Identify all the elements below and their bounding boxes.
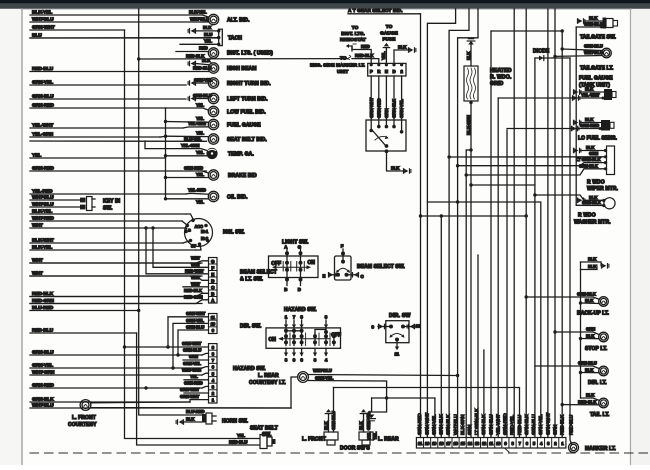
connector P R N D 2 [368, 63, 406, 76]
svg-text:OFF: OFF [271, 261, 281, 267]
svg-text:FUSE: FUSE [383, 36, 396, 41]
wire GRN-RED gear [378, 76, 380, 127]
wire GRN-BLU dir lt [535, 366, 599, 369]
svg-text:BLK: BLK [588, 264, 597, 269]
svg-text:GRN-BLK: GRN-BLK [584, 22, 604, 27]
wire GRN-WHT y=30 [30, 29, 125, 31]
svg-text:L. FRONT: L. FRONT [302, 437, 326, 443]
svg-text:HAZARD SW.: HAZARD SW. [233, 366, 266, 372]
svg-text:BLK-WHT: BLK-WHT [32, 237, 54, 243]
lamp FUEL GAUGE [208, 119, 218, 129]
svg-text:GRN-BLK: GRN-BLK [582, 200, 602, 205]
rotary gear switch [366, 120, 406, 151]
svg-text:DIODE: DIODE [533, 49, 550, 55]
svg-text:GRN-BLU: GRN-BLU [331, 411, 336, 430]
lamp OIL IND. [208, 191, 218, 201]
svg-text:GRN-RED: GRN-RED [32, 102, 54, 108]
wire BLK-YEL y=15 [30, 14, 203, 16]
svg-text:GRID: GRID [490, 81, 504, 87]
svg-text:YEL: YEL [367, 432, 372, 440]
svg-text:GRN-BLU: GRN-BLU [186, 324, 204, 329]
wire GRN-BLK wiper [466, 169, 606, 175]
svg-text:GRN-BLK: GRN-BLK [32, 396, 54, 402]
svg-text:BLU-YEL: BLU-YEL [184, 137, 202, 142]
contact column hazard x=301.6 [300, 334, 304, 338]
wire GRN gear [385, 76, 387, 127]
lamp BACK-UP LT. [599, 297, 609, 307]
svg-text:B: B [188, 227, 191, 232]
wire bus v6 GRN-BLK [525, 9, 527, 438]
svg-text:GRN-YEL: GRN-YEL [366, 411, 371, 430]
wire GRN-YEL rear courtesy [308, 381, 386, 431]
svg-text:GRN-RED: GRN-RED [376, 97, 381, 118]
svg-text:DOOR SW'S: DOOR SW'S [340, 445, 370, 451]
svg-text:RED-WHT: RED-WHT [185, 269, 204, 274]
svg-text:YEL-WHT: YEL-WHT [32, 122, 53, 128]
svg-text:LO FUEL SENS.: LO FUEL SENS. [578, 135, 618, 141]
svg-text:BLK-GRN: BLK-GRN [460, 414, 466, 435]
svg-text:WHT-BLU: WHT-BLU [313, 368, 332, 373]
wire stub cell13 [477, 255, 479, 438]
svg-text:& LT. SW.: & LT. SW. [240, 277, 264, 283]
svg-text:RIGHT TURN IND.: RIGHT TURN IND. [227, 81, 271, 87]
wire ground YEL stub [371, 398, 373, 411]
lamp DIR. LT. [599, 366, 609, 376]
svg-text:IG 2: IG 2 [201, 236, 209, 241]
svg-text:GRN-WHT: GRN-WHT [180, 387, 200, 392]
contact column hazard x=286 [284, 334, 288, 338]
svg-text:RED-BLU: RED-BLU [193, 66, 211, 71]
wire bus v17 [449, 9, 469, 438]
svg-text:GRN: GRN [189, 354, 198, 359]
svg-text:YEL: YEL [196, 172, 204, 177]
selector arrow [276, 266, 307, 268]
svg-text:YEL-WHT: YEL-WHT [188, 121, 207, 126]
wire RED-BLU to seat belt sw [137, 333, 259, 445]
door switch L REAR [359, 432, 373, 440]
connector BLK pair top right [581, 261, 602, 263]
wire BLU tach [30, 37, 219, 39]
connector BEAM SELECT & LT. SW. [209, 258, 218, 304]
svg-text:GRN-WHT: GRN-WHT [180, 394, 200, 399]
wire BLK-WHT y=243 [30, 242, 183, 244]
contact bars [282, 262, 284, 272]
wire YEL y=158 [30, 157, 166, 159]
svg-text:WHT-BLU: WHT-BLU [32, 201, 54, 207]
lamp INST. LTS. [208, 48, 218, 58]
wire bus v8 [513, 9, 515, 438]
wire bus v1 RED-BLK [561, 31, 563, 438]
wire BLU-YEL seat belt ind feed [30, 140, 207, 142]
wire RED-BLU y=333 [30, 332, 137, 334]
svg-text:GRN-BLK: GRN-BLK [446, 414, 452, 435]
svg-text:GRN-YEL: GRN-YEL [186, 318, 204, 323]
switch SEAT BELT SW. [260, 435, 267, 449]
svg-text:YEL: YEL [196, 131, 204, 136]
svg-text:GRN-RED: GRN-RED [32, 382, 54, 388]
tach terminal strip [219, 29, 223, 45]
svg-text:GRN-WHT: GRN-WHT [32, 24, 55, 30]
wire GRN-WHT hazard 2 [184, 392, 209, 394]
svg-text:YEL: YEL [196, 102, 204, 107]
svg-text:BLK-YEL: BLK-YEL [32, 244, 52, 250]
wire WHT-BLU y=22 [30, 21, 209, 23]
switch KEY IN SW. [87, 197, 93, 211]
wire YEL-WHT y=128 [30, 127, 183, 129]
lamp TAILGATE LT. [602, 48, 612, 58]
svg-text:BLK: BLK [324, 421, 329, 430]
svg-text:LT GRN-BLK: LT GRN-BLK [474, 408, 480, 435]
wire GRN-BLK gear [393, 76, 395, 127]
wire bus v15 [465, 150, 467, 438]
svg-text:IG 1: IG 1 [201, 229, 209, 234]
svg-text:G: G [211, 259, 215, 264]
svg-text:GRN-YEL: GRN-YEL [32, 79, 53, 85]
svg-text:BLK: BLK [589, 16, 598, 21]
wire washer BLK / GRN-BLU bus vertical [534, 58, 536, 438]
wire WHT y=263 [30, 262, 202, 264]
wire BLK-YEL y=214 [30, 213, 186, 215]
svg-text:WHT: WHT [191, 282, 201, 287]
wire GRN-BLK y=402 [30, 401, 190, 403]
svg-text:HIGH BEAM: HIGH BEAM [227, 66, 257, 72]
svg-text:WHT-BLU: WHT-BLU [584, 50, 603, 55]
svg-text:FUEL GAUGE: FUEL GAUGE [227, 122, 261, 128]
svg-text:GAUGE: GAUGE [380, 30, 398, 35]
svg-text:FUEL GAUGE: FUEL GAUGE [579, 76, 613, 82]
svg-text:TO: TO [352, 25, 359, 30]
wire WHT-BLU tailgate lt [555, 55, 602, 58]
svg-text:N: N [385, 69, 388, 74]
svg-text:KEY IN: KEY IN [103, 198, 120, 204]
wire WHT-RED y=221 [30, 220, 182, 222]
wire bus v10 YEL-WHT [497, 98, 499, 438]
wire WHT-GRN hazard 5 [202, 373, 209, 375]
svg-text:GRN: GRN [589, 151, 598, 156]
svg-text:WIPER MTR.: WIPER MTR. [587, 186, 619, 192]
lamp SEAT BELT IND. [208, 134, 218, 144]
svg-text:R WDO: R WDO [587, 179, 605, 185]
svg-text:YEL-RED: YEL-RED [188, 188, 206, 193]
svg-text:GRN-BLU: GRN-BLU [183, 348, 201, 353]
svg-text:TAILGATE LT.: TAILGATE LT. [580, 65, 614, 71]
wire RED to P [352, 46, 371, 63]
terminal stem light sw x=287 [286, 248, 288, 278]
svg-text:COURTESY: COURTESY [68, 422, 97, 428]
resistor HEATED R. WDO. GRID [464, 66, 478, 101]
wire GRN-BLU dir sw 9 [178, 330, 209, 355]
wire BLK tail [581, 398, 600, 400]
wire BLK-GRN grid bottom [470, 101, 472, 438]
wire crossing y185 [471, 184, 535, 186]
svg-text:GRN-BLK: GRN-BLK [439, 414, 445, 435]
svg-text:RED-YEL: RED-YEL [510, 415, 516, 435]
wire WHT-BLU rear courtesy [308, 375, 457, 376]
svg-text:IGN. SW.: IGN. SW. [223, 230, 245, 236]
wire GRN-BLU y=99 [30, 98, 186, 100]
svg-text:GRN-BLK: GRN-BLK [481, 414, 487, 435]
svg-text:GRN: GRN [552, 424, 558, 435]
svg-text:YEL-RED: YEL-RED [32, 188, 53, 194]
svg-text:TAILGATE SW.: TAILGATE SW. [580, 35, 617, 41]
svg-text:F: F [211, 265, 214, 270]
svg-text:(TANK UNIT): (TANK UNIT) [579, 82, 610, 88]
svg-text:GRN-YEL: GRN-YEL [399, 99, 404, 118]
wire GRN-BLU front door [334, 388, 520, 438]
svg-text:OFF: OFF [331, 333, 341, 339]
svg-text:GRN: GRN [586, 327, 595, 332]
terminal 4 hazard bottom [325, 348, 327, 355]
svg-text:RED-BLK: RED-BLK [578, 399, 597, 404]
svg-text:YEL: YEL [196, 150, 204, 155]
wire BLK washer [535, 195, 604, 200]
svg-text:BLK: BLK [586, 145, 595, 150]
svg-text:GRN-YEL: GRN-YEL [32, 362, 53, 368]
svg-text:RED-BLK: RED-BLK [560, 414, 566, 435]
svg-text:HAZARD SW.: HAZARD SW. [284, 307, 317, 313]
svg-text:BLU: BLU [204, 32, 212, 37]
svg-text:R. WDO.: R. WDO. [490, 75, 512, 81]
svg-text:YEL: YEL [381, 51, 386, 60]
wire BLK gear ground [387, 151, 404, 171]
node YEL daisy bus [165, 108, 167, 199]
wire GRN-WHT gear [370, 76, 372, 131]
svg-text:INST. LTS.: INST. LTS. [341, 31, 365, 36]
wire GRN-BLK washer [576, 204, 604, 206]
svg-text:WHT-RED: WHT-RED [32, 215, 54, 221]
lamp LEFT TURN IND. [208, 93, 218, 103]
svg-text:RED-BLK: RED-BLK [355, 53, 374, 58]
svg-text:RED-BLU: RED-BLU [517, 414, 523, 435]
svg-text:GRN-BLK: GRN-BLK [524, 414, 530, 435]
wire WHT y=228 [30, 227, 187, 229]
terminal stem light sw x=300.5 [300, 248, 302, 278]
wire GRN-WHT hazard 9 [125, 346, 209, 348]
lamp STOP LT. [599, 332, 609, 342]
connector HAZARD SW. leads [209, 344, 218, 403]
selector arrow hazard [282, 338, 330, 340]
door switch L FRONT [324, 432, 338, 440]
wire BLU-RED bus x=138.7 to horn [139, 9, 202, 415]
wire bus v16 [458, 9, 478, 438]
svg-text:GRN-BLU: GRN-BLU [531, 414, 537, 435]
wire bus BLK right x=580.5 [580, 262, 582, 398]
wire GRN-RED y=108 [30, 107, 166, 109]
wire GRN hazard 7 [183, 359, 209, 361]
svg-text:BLK-YEL: BLK-YEL [32, 9, 52, 15]
switch TAILGATE SW. [603, 18, 607, 29]
top dark bar [0, 0, 650, 4]
svg-text:GRN-BLU: GRN-BLU [488, 414, 494, 435]
svg-text:BLK: BLK [586, 393, 595, 398]
svg-text:GRN-YEL: GRN-YEL [183, 361, 201, 366]
switch BEAM SELECT SW. [335, 256, 352, 280]
gauge TEMP. GA. (filled) [206, 148, 217, 159]
wire BLU y=38 [30, 37, 219, 39]
wire YEL-RED y=194 [30, 193, 186, 195]
switch HORN SW. [206, 413, 212, 424]
svg-text:OIL IND.: OIL IND. [227, 195, 248, 201]
svg-text:TO: TO [386, 24, 393, 29]
wire bus v20 [427, 9, 455, 438]
svg-text:WASHER MTR.: WASHER MTR. [574, 219, 611, 225]
wire WHT-BLU y=408 [30, 407, 291, 409]
svg-text:D: D [393, 69, 396, 74]
svg-text:GRN-RED: GRN-RED [503, 413, 509, 435]
svg-text:BLK: BLK [186, 416, 195, 421]
wire GRN-YEL y=368 [30, 367, 202, 369]
svg-text:MARKER LT.: MARKER LT. [585, 446, 616, 452]
wire YEL to N [384, 43, 389, 47]
svg-text:GRN-RED: GRN-RED [417, 413, 423, 435]
svg-text:WHT-BLU: WHT-BLU [453, 414, 459, 435]
wire GRN-YEL y=85 [30, 84, 186, 86]
svg-text:GRN-BLK: GRN-BLK [577, 291, 597, 296]
svg-text:C: C [361, 274, 364, 279]
svg-text:SW.: SW. [103, 205, 113, 211]
svg-text:YEL: YEL [204, 39, 212, 44]
svg-text:TAIL LT.: TAIL LT. [590, 412, 610, 418]
svg-text:HEATED: HEATED [490, 68, 512, 74]
wire bus v9 GRN-RED [506, 130, 508, 438]
svg-text:WHT-BLU: WHT-BLU [190, 16, 209, 21]
wire bus v11 (cell11) [490, 31, 492, 438]
svg-text:WHT-BLU: WHT-BLU [32, 16, 54, 22]
wire BLK grid top (ground) [470, 45, 472, 67]
wire GRN-RED hazard 3 [202, 386, 209, 388]
wire GRN wiper [449, 156, 606, 158]
wire YEL-GRN y=137 [30, 136, 160, 138]
motor R WDO WASHER MTR. [604, 198, 615, 209]
svg-text:BLK: BLK [391, 165, 400, 170]
svg-text:GRN-RED: GRN-RED [184, 381, 203, 386]
lamp BRAKE IND [208, 170, 218, 180]
wire YEL to tach [180, 43, 219, 45]
contact column hazard x=326 [324, 334, 328, 338]
svg-text:GRN-BLU: GRN-BLU [193, 93, 212, 98]
wire WHT-BLU y=200 [30, 199, 80, 201]
lamp LOW FUEL IND. [208, 106, 218, 116]
svg-text:GRN-WHT: GRN-WHT [186, 311, 206, 316]
svg-text:SW.: SW. [262, 432, 272, 438]
wire GRN stop [555, 332, 599, 335]
svg-text:GRN-YEL: GRN-YEL [538, 414, 544, 435]
svg-text:ENG. SIDE MARKER LT.: ENG. SIDE MARKER LT. [310, 63, 365, 68]
terminal 6 hazard bottom [301, 348, 303, 355]
wire GRN-YEL dir sw 10 [173, 323, 209, 368]
wire YEL-GRN temp ga feed (step) [145, 141, 207, 150]
svg-text:BLK: BLK [585, 298, 594, 303]
wire RED-GRN y=303.5 [30, 303, 202, 305]
svg-text:GRN-YEL: GRN-YEL [315, 376, 334, 381]
svg-text:BLK-GRN: BLK-GRN [466, 114, 471, 135]
lamp L. REAR COURTESY LT. [298, 372, 309, 383]
svg-text:GRN-RED: GRN-RED [184, 165, 203, 170]
wire BLK to D + connector [394, 50, 408, 63]
svg-text:DIR. LT.: DIR. LT. [588, 380, 607, 386]
svg-text:RED-BLU: RED-BLU [569, 414, 575, 435]
left page edge line [21, 9, 23, 465]
svg-text:BLK: BLK [398, 44, 407, 49]
svg-text:UNIT: UNIT [337, 69, 348, 74]
svg-text:BLK: BLK [585, 117, 594, 122]
wire WHT-GRN y=375 [30, 374, 202, 376]
svg-text:GRN-WHT: GRN-WHT [369, 97, 374, 118]
wire BLU-RED y=310.5 [30, 310, 139, 312]
svg-text:YEL: YEL [196, 199, 204, 204]
wire GRN-WHT hazard 1 [190, 400, 209, 402]
svg-text:GRN-BLK: GRN-BLK [579, 163, 599, 168]
svg-text:BRAKE IND: BRAKE IND [228, 173, 257, 179]
svg-text:LT GRN-BLK: LT GRN-BLK [576, 157, 601, 162]
lamp ALT. IND. [208, 14, 218, 24]
svg-text:BACK-UP LT.: BACK-UP LT. [577, 311, 610, 317]
svg-text:L. REAR: L. REAR [258, 373, 279, 379]
svg-text:WHT: WHT [32, 222, 43, 228]
wire WHT y=276 [30, 275, 202, 277]
svg-text:ALT. IND.: ALT. IND. [227, 18, 250, 24]
wire bus v3 GRN-WHT [547, 9, 549, 438]
svg-text:GRN-WHT: GRN-WHT [545, 413, 551, 435]
wire bus v2 GRN [554, 9, 556, 438]
svg-text:YEL: YEL [190, 374, 198, 379]
svg-text:COURTESY LT.: COURTESY LT. [249, 380, 286, 386]
wire GRN-RED lo fuel [507, 128, 601, 130]
wire BLK horn [184, 421, 202, 423]
wire RED-BLK y=296.5 [30, 296, 202, 298]
lamp L. FRONT COURTESY [80, 400, 91, 411]
svg-text:DIR. SW: DIR. SW [389, 313, 411, 319]
svg-text:GRN-YEL: GRN-YEL [431, 414, 437, 435]
svg-text:BLK-YEL: BLK-YEL [32, 208, 52, 214]
svg-text:YEL-WHT: YEL-WHT [581, 93, 600, 98]
rotary arm [373, 131, 386, 146]
svg-text:YEL: YEL [32, 152, 41, 158]
svg-text:RED-BLU: RED-BLU [229, 440, 247, 445]
svg-text:P: P [370, 69, 373, 74]
svg-text:GRN: GRN [467, 424, 473, 435]
wire bus v4 GRN-YEL [427, 202, 540, 438]
bottom dashed border [30, 452, 648, 454]
switch DIR. SW (panel) [386, 321, 409, 343]
svg-text:TACH: TACH [228, 36, 242, 42]
svg-text:YEL-GRN: YEL-GRN [32, 131, 54, 137]
svg-text:BLK: BLK [466, 51, 471, 60]
switch LIGHT SW. [269, 256, 319, 278]
svg-text:WHT-GRN: WHT-GRN [182, 367, 201, 372]
svg-text:D: D [298, 287, 301, 292]
svg-text:ON: ON [308, 260, 316, 266]
svg-text:YEL-WHT: YEL-WHT [495, 414, 501, 435]
wire BLK-YEL y=250 [30, 249, 196, 251]
lamp HIGH BEAM [208, 63, 218, 73]
right page edge line [630, 9, 632, 465]
wire GRN-BLK tailgate vertical x=576.2 [575, 27, 577, 205]
svg-text:HORN SW.: HORN SW. [222, 419, 249, 425]
wire RED-BLU y=71.5 [30, 71, 209, 73]
svg-text:E: E [211, 272, 214, 277]
wire GRN-YEL gear [401, 76, 403, 132]
svg-text:GRN-YEL: GRN-YEL [194, 77, 213, 82]
wire top crossing to tailgate [491, 30, 562, 32]
svg-text:11: 11 [395, 351, 400, 356]
svg-text:BLK: BLK [585, 367, 594, 372]
connector main harness strip [416, 438, 566, 449]
lamp TAIL LT. [599, 398, 609, 408]
wire BLK to tach [196, 30, 219, 32]
svg-text:E: E [323, 274, 326, 279]
svg-text:BLK: BLK [586, 333, 595, 338]
